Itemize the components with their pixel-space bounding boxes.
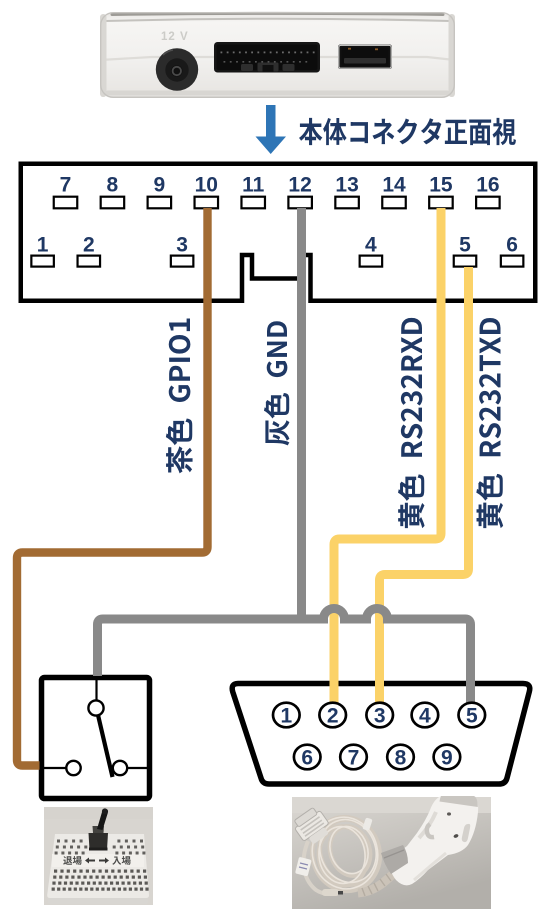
device photo body	[100, 12, 455, 98]
device DC jack	[156, 48, 198, 90]
pin 8 (top row)	[101, 173, 125, 208]
photo: barcode scanner with cable	[292, 797, 491, 909]
pin 1 (bottom row)	[31, 234, 53, 267]
DSUB pin 2 circled number	[319, 703, 346, 728]
switch lever	[98, 715, 113, 777]
DSUB pin 1 circled number	[273, 703, 300, 728]
pin 3 (bottom row)	[171, 234, 194, 267]
pin 5 (bottom row)	[454, 234, 477, 267]
scanner body	[391, 796, 479, 885]
wire yellow RS232RXD: pin15 down, left, down to DSUB pin2	[334, 208, 441, 703]
DSUB 9pin trapezoid outline	[232, 684, 530, 785]
breadboard toggle switch	[89, 808, 109, 850]
svg-text:12: 12	[288, 173, 311, 196]
svg-text:6: 6	[301, 747, 313, 770]
svg-text:8: 8	[395, 747, 407, 770]
svg-text:4: 4	[365, 234, 377, 257]
wire brown GPIO1: pin10 down, left, down, right into switch box	[17, 208, 208, 766]
svg-text:7: 7	[60, 173, 72, 196]
switch right terminal circle	[113, 761, 127, 775]
label 黄色 RS232RXD (rotated)	[398, 318, 425, 528]
svg-text:11: 11	[242, 173, 265, 196]
wire gray GND horizontal with two hops, branches to switch and DSUB pin5	[98, 609, 471, 704]
svg-text:9: 9	[441, 747, 453, 770]
svg-text:12 V: 12 V	[161, 31, 189, 43]
device molex connector	[214, 42, 320, 73]
svg-text:10: 10	[195, 173, 218, 196]
pin 2 (bottom row)	[78, 234, 101, 267]
DSUB pin 7 circled number	[340, 745, 367, 770]
scanner cable coil	[305, 810, 388, 898]
pin 14 (top row)	[382, 173, 406, 208]
svg-text:8: 8	[107, 173, 119, 196]
scanner cable thin lead + label + end plug	[295, 841, 343, 896]
svg-text:2: 2	[327, 705, 339, 728]
pin 10 (top row)	[195, 173, 219, 208]
pin 12 (top row)	[288, 173, 312, 208]
label 灰色 GND (rotated)	[264, 321, 289, 445]
svg-text:14: 14	[382, 173, 406, 196]
svg-text:16: 16	[476, 173, 499, 196]
photo: breadboard with toggle switch	[44, 807, 153, 905]
switch left terminal wire	[44, 767, 66, 769]
switch top terminal circle	[88, 700, 103, 715]
scanner cable tie clip	[362, 817, 372, 831]
pin 4 (bottom row)	[360, 234, 383, 267]
wire gray GND vertical from pin12	[297, 208, 306, 619]
device USB port	[338, 45, 392, 70]
svg-text:5: 5	[459, 234, 471, 257]
device label 12V	[161, 31, 189, 43]
DSUB pin 3 circled number	[366, 703, 393, 728]
svg-text:5: 5	[466, 705, 478, 728]
pin 13 (top row)	[335, 173, 359, 208]
switch left terminal circle	[66, 761, 80, 775]
pin 9 (top row)	[148, 173, 172, 208]
switch right terminal wire	[128, 767, 148, 769]
heading text 本体コネクタ正面視	[299, 118, 516, 145]
DSUB pin 6 circled number	[294, 745, 321, 770]
svg-text:2: 2	[83, 234, 95, 257]
DSUB pin 5 circled number	[459, 703, 486, 728]
scanner cable dsub plug	[291, 805, 334, 848]
arrow down (blue)	[256, 105, 287, 154]
DSUB pin 9 circled number	[434, 745, 461, 770]
pin 7 (top row)	[54, 173, 78, 208]
pin 16 (top row)	[476, 173, 500, 208]
svg-text:3: 3	[374, 705, 386, 728]
svg-text:4: 4	[419, 705, 431, 728]
svg-text:9: 9	[154, 173, 166, 196]
svg-text:1: 1	[280, 705, 292, 728]
pin 6 (bottom row)	[501, 234, 523, 267]
label 茶色 GPIO1 (rotated)	[166, 319, 193, 474]
svg-text:3: 3	[176, 234, 188, 257]
svg-text:13: 13	[335, 173, 358, 196]
label 黄色 RS232TXD (rotated)	[476, 318, 503, 528]
scanner handle boot (gray)	[381, 845, 408, 874]
wire yellow RS232TXD: pin5 down, left, down to DSUB pin3	[380, 267, 469, 703]
switch box outline	[42, 678, 150, 799]
svg-text:15: 15	[429, 173, 453, 196]
scanner corrugated strain relief	[358, 869, 398, 896]
DSUB pin 4 circled number	[412, 703, 439, 728]
pin 15 (top row)	[429, 173, 453, 208]
svg-text:1: 1	[37, 234, 49, 257]
svg-text:6: 6	[506, 234, 518, 257]
switch common wire stub (inside, top)	[95, 680, 97, 700]
svg-text:7: 7	[348, 747, 360, 770]
connector box outline with key notch	[21, 164, 536, 301]
breadboard label 退場 arrow 入場	[63, 856, 81, 865]
DSUB pin 8 circled number	[387, 745, 414, 770]
pin 11 (top row)	[241, 173, 265, 208]
